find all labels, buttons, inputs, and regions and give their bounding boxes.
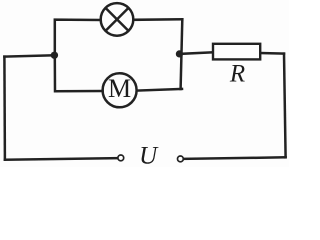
node A junction dot bbox=[51, 52, 58, 59]
wire bottom left to terminal bbox=[5, 158, 118, 160]
resistor R bbox=[213, 44, 260, 88]
wire resistor to right vertical bbox=[260, 52, 284, 55]
wire right vertical bbox=[284, 54, 286, 158]
lamp L1 (circle with X) bbox=[101, 3, 134, 36]
svg-text:U: U bbox=[139, 142, 159, 167]
wire node B to resistor bbox=[179, 52, 212, 54]
svg-text:M: M bbox=[108, 74, 131, 103]
wire top branch right (lamp to right vertical) bbox=[134, 18, 183, 21]
wire bottom right from terminal bbox=[183, 157, 285, 159]
terminal right (open circle) bbox=[178, 156, 184, 162]
terminal left (open circle) bbox=[118, 155, 124, 161]
wire left feed bbox=[4, 55, 54, 56]
wire bottom branch right (motor to right vertical) bbox=[137, 89, 182, 91]
wire bottom branch left (node A to motor) bbox=[55, 55, 103, 91]
motor M1 (circle with M) bbox=[103, 73, 137, 107]
wire top branch left (node A to lamp) bbox=[55, 20, 101, 56]
svg-text:R: R bbox=[229, 61, 245, 88]
wire left vertical bbox=[3, 57, 6, 160]
wire right vertical of parallel section bbox=[181, 19, 183, 89]
node B junction dot bbox=[176, 50, 183, 57]
